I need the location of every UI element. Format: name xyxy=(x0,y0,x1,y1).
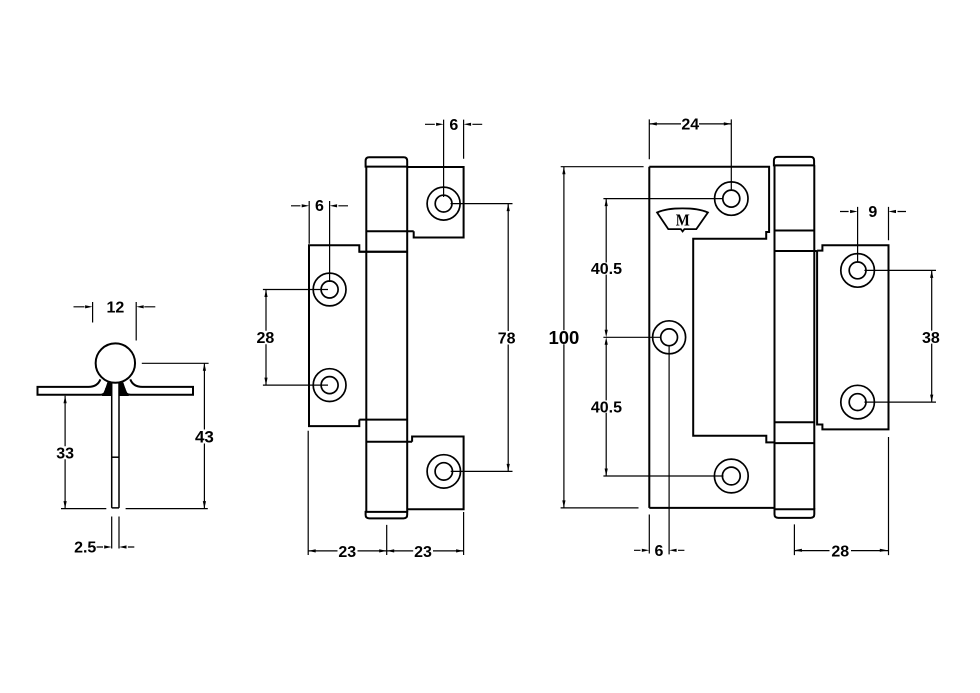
svg-text:M: M xyxy=(676,211,690,230)
svg-text:6: 6 xyxy=(315,198,324,215)
svg-text:40.5: 40.5 xyxy=(591,261,622,278)
svg-text:12: 12 xyxy=(107,299,125,316)
svg-text:28: 28 xyxy=(831,543,849,560)
svg-text:100: 100 xyxy=(548,327,579,348)
svg-text:43: 43 xyxy=(195,428,214,447)
svg-text:2.5: 2.5 xyxy=(74,540,96,557)
svg-text:23: 23 xyxy=(414,544,432,561)
svg-text:33: 33 xyxy=(56,446,74,463)
svg-text:6: 6 xyxy=(655,543,664,560)
svg-text:40.5: 40.5 xyxy=(591,399,622,416)
svg-text:24: 24 xyxy=(681,117,699,134)
svg-text:23: 23 xyxy=(338,544,356,561)
svg-text:38: 38 xyxy=(922,330,940,347)
svg-text:6: 6 xyxy=(449,117,458,134)
svg-text:28: 28 xyxy=(257,330,275,347)
svg-text:9: 9 xyxy=(868,204,877,221)
svg-text:78: 78 xyxy=(498,330,516,347)
